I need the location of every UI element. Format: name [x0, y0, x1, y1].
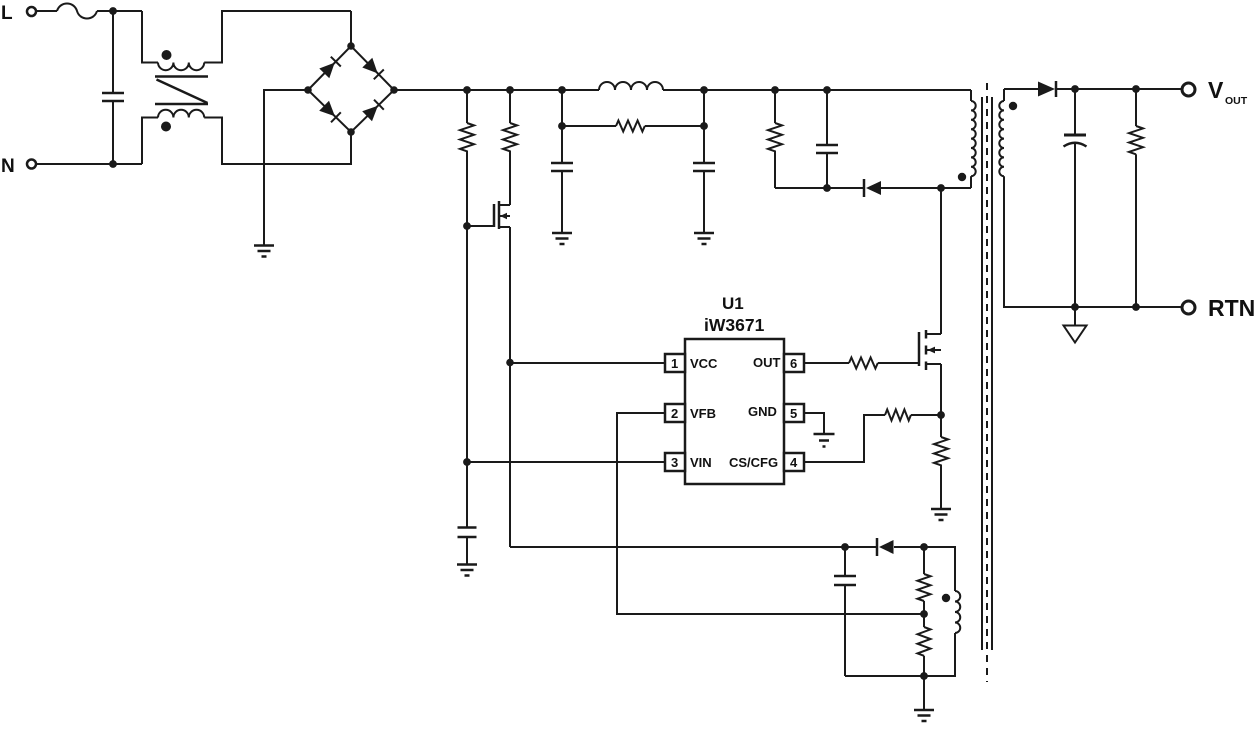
node bridge right [390, 86, 398, 94]
core T1 dashed shield line [986, 83, 988, 682]
resistor R6 CS [885, 410, 911, 421]
capacitor C5 VCC [844, 547, 846, 576]
svg-text:U1: U1 [722, 294, 744, 313]
wire aux bottom [845, 633, 955, 676]
ground earth sense [931, 509, 951, 520]
node output res [1132, 85, 1140, 93]
svg-text:VCC: VCC [690, 356, 718, 371]
node RTN cap [1071, 303, 1079, 311]
IC U1 body [685, 339, 784, 484]
resistor R5 gate [849, 358, 878, 369]
wire VCC rail [510, 546, 876, 548]
wire GND pin5 [804, 413, 824, 434]
svg-text:4: 4 [790, 455, 798, 470]
svg-text:OUT: OUT [1225, 95, 1248, 107]
phase dot primary [958, 173, 966, 181]
node bus C2 [700, 86, 708, 94]
phase dot aux [942, 594, 950, 602]
resistor R1 startup divider [466, 90, 468, 123]
pin 4 box [784, 453, 804, 471]
wire main bus after inductor [663, 89, 971, 91]
inductor L1 bottom winding [158, 110, 204, 118]
fuse F1 [57, 4, 97, 19]
node bus R1 [463, 86, 471, 94]
node damper left [558, 122, 566, 130]
resistor R8 divider upper [923, 547, 925, 574]
wire VCC vertical down [509, 362, 511, 547]
diode D1 snubber [863, 179, 866, 197]
wire VCC pin1 [510, 362, 665, 364]
transistor Q2 main switch [918, 332, 921, 366]
phase dot choke top [162, 50, 172, 60]
svg-text:6: 6 [790, 356, 797, 371]
diode D3 output [1038, 82, 1055, 97]
svg-text:VFB: VFB [690, 406, 716, 421]
wire VFB pin2 [617, 413, 924, 614]
node VFB divider [920, 610, 928, 618]
pin 6 box [784, 354, 804, 372]
wire C1 node to cap [561, 126, 563, 163]
capacitor C4 snubber [826, 90, 828, 145]
node bus snubber R [771, 86, 779, 94]
wire Q1 source down [509, 227, 511, 362]
wire VIN node to C3 [466, 462, 468, 528]
svg-text:GND: GND [748, 404, 777, 419]
resistor R4 snubber [774, 90, 776, 123]
ground earth aux [914, 710, 934, 721]
node gate Q1 [463, 222, 471, 230]
wire C2 node to cap [703, 126, 705, 163]
wire bus to damper node C1 [561, 90, 563, 126]
svg-text:2: 2 [671, 406, 678, 421]
svg-text:CS/CFG: CS/CFG [729, 455, 778, 470]
transformer T1 secondary winding [1003, 89, 1005, 101]
wire top bus down to bridge [350, 11, 352, 46]
svg-text:iW3671: iW3671 [704, 315, 765, 335]
wire drain line [940, 188, 942, 334]
wire aux rail to ground [923, 676, 925, 710]
svg-text:L: L [1, 3, 13, 24]
wire bus to damper node C2 [703, 90, 705, 126]
svg-text:N: N [1, 156, 15, 177]
svg-text:3: 3 [671, 455, 678, 470]
wire C2 to ground [703, 171, 705, 233]
node bridge bottom [347, 128, 355, 136]
capacitor C3 VIN [458, 528, 477, 538]
transistor Q1 startup MOSFET [467, 225, 494, 227]
node bus R2 [506, 86, 514, 94]
capacitor CX1 [102, 93, 124, 101]
diode bridge bottom-right [362, 106, 378, 121]
ground earth C3 [457, 565, 477, 576]
bridge rectifier BR1 frame [308, 46, 394, 132]
wire C3 to ground [466, 537, 468, 565]
wire diode to aux top [894, 547, 955, 591]
ground earth C1 [552, 233, 572, 244]
wire choke top to top bus [204, 11, 351, 63]
node N-junction [109, 160, 117, 168]
phase dot secondary [1009, 102, 1017, 110]
node bus C1 [558, 86, 566, 94]
terminal VOUT [1182, 83, 1195, 96]
resistor R3 damper [616, 121, 645, 132]
svg-text:V: V [1208, 77, 1224, 103]
capacitor C1 [551, 163, 573, 171]
wire L node to choke top [142, 11, 158, 63]
wire damper right segment [645, 125, 704, 127]
pin 1 box [665, 354, 685, 372]
diode bridge bottom-left [319, 101, 335, 116]
svg-text:VIN: VIN [690, 455, 712, 470]
wire X-cap to N rail [112, 102, 114, 164]
wire gate resistor to Q2 gate [878, 362, 919, 364]
wire secondary top to diode [1004, 88, 1038, 90]
ground earth GND pin [814, 434, 835, 447]
capacitor C6 output [1074, 89, 1076, 134]
wire R1 node down to VIN node [466, 226, 468, 462]
node VCC cap [841, 543, 849, 551]
wire OUT pin6 to gate resistor [804, 362, 849, 364]
node VIN [463, 458, 471, 466]
core lines choke [155, 77, 208, 105]
diode bridge top-right [362, 58, 377, 74]
wire N rail [37, 163, 143, 165]
node aux rail [920, 672, 928, 680]
inductor L2 filter [599, 82, 663, 90]
resistor R2 startup [509, 90, 511, 123]
resistor R9 divider lower [923, 614, 925, 627]
pin 2 box [665, 404, 685, 422]
node bridge left [304, 86, 312, 94]
node RTN res [1132, 303, 1140, 311]
wire secondary bottom to RTN rail [1004, 176, 1183, 307]
node snubber C bottom [823, 184, 831, 192]
node drain junction [937, 184, 945, 192]
node bus snubber C [823, 86, 831, 94]
wire bridge left to ground [264, 90, 308, 245]
diode bridge top-left [319, 63, 334, 79]
wire CS resistor to source node [911, 414, 941, 416]
wire choke bottom to bridge [204, 118, 351, 165]
transformer T1 aux winding [955, 591, 960, 633]
node aux divider top [920, 543, 928, 551]
svg-text:RTN: RTN [1208, 295, 1255, 321]
node output cap [1071, 85, 1079, 93]
node L-junction [109, 7, 117, 15]
wire snubber rail right [881, 187, 971, 189]
ground signal output [1074, 307, 1076, 325]
pin 5 box [784, 404, 804, 422]
wire fuse to node [97, 10, 142, 12]
diode D2 VCC [876, 538, 879, 556]
wire choke bottom left leg [142, 118, 158, 165]
wire snubber rail left [775, 187, 863, 189]
node source junction [937, 411, 945, 419]
wire main bus [394, 89, 599, 91]
inductor L1 top winding [158, 63, 204, 71]
wire CS pin4 [804, 415, 885, 462]
wire damper left segment [562, 125, 616, 127]
phase dot choke bottom [161, 122, 171, 132]
node bridge top [347, 42, 355, 50]
terminal RTN [1182, 301, 1195, 314]
node damper right [700, 122, 708, 130]
svg-text:1: 1 [671, 356, 678, 371]
transformer T1 primary winding [970, 90, 972, 101]
resistor R10 output [1135, 89, 1137, 126]
node VCC tap [506, 359, 514, 367]
svg-text:OUT: OUT [753, 355, 781, 370]
svg-text:5: 5 [790, 406, 797, 421]
wire VIN pin3 [467, 461, 665, 463]
capacitor C2 [693, 163, 715, 171]
wire node down to X-cap [112, 11, 114, 92]
wire C1 to ground [561, 171, 563, 233]
wire L terminal to fuse [37, 10, 58, 12]
pin 3 box [665, 453, 685, 471]
ground earth at bridge [254, 246, 274, 257]
ground earth C2 [694, 233, 714, 244]
resistor R7 sense [940, 415, 942, 437]
wire Q2 source [940, 364, 942, 415]
wire output line [1056, 88, 1183, 90]
core T1 solid lines [982, 97, 992, 650]
